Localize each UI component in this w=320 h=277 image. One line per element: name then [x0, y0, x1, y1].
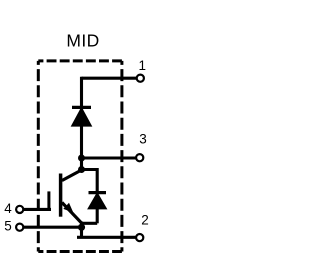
wire: to pin 3: [82, 156, 136, 159]
transistor Q1 emitter lead with arrow: [62, 203, 82, 224]
svg-text:1: 1: [139, 58, 147, 73]
node: junction to freewheel diode cathode: [78, 166, 85, 173]
svg-text:4: 4: [4, 201, 12, 216]
svg-text:5: 5: [4, 219, 12, 234]
svg-text:MID: MID: [66, 31, 99, 51]
diode D1 (top, cathode up): [72, 107, 91, 125]
terminal pin 3: [136, 154, 143, 161]
transistor Q1 channel bar: [59, 174, 63, 217]
diode D2 (freewheel, cathode up): [89, 193, 107, 224]
wire: bottom bus to pin 2: [77, 236, 136, 239]
module outline (dashed) top edge: [38, 59, 122, 62]
node: junction to pin 3: [78, 155, 85, 162]
transistor Q1 (IGBT) collector lead: [62, 170, 82, 181]
node: pin 5 junction: [78, 224, 85, 231]
terminal pin 2: [136, 234, 143, 241]
terminal pin 5: [16, 224, 23, 231]
terminal pin 1: [137, 75, 144, 82]
svg-text:2: 2: [141, 213, 149, 228]
wire: pin 4 gate lead: [24, 208, 51, 211]
wire: emitter node vertical: [80, 222, 83, 238]
module outline (dashed) left edge: [37, 61, 40, 252]
wire: branch to freewheel diode D2 cathode: [82, 170, 98, 193]
module outline (dashed) bottom edge: [38, 250, 122, 253]
terminal pin 4: [16, 206, 23, 213]
wire: top bus from corner to pin 1: [82, 77, 137, 80]
wire: main vertical (corner down through diode D1 to collector node): [80, 77, 83, 171]
svg-text:3: 3: [139, 132, 147, 147]
module outline (dashed) right edge: [120, 61, 123, 252]
wire: branch to freewheel diode anode: [82, 222, 98, 225]
transistor Q1 gate bar: [47, 191, 50, 208]
wire: pin 5 lead: [24, 226, 82, 229]
